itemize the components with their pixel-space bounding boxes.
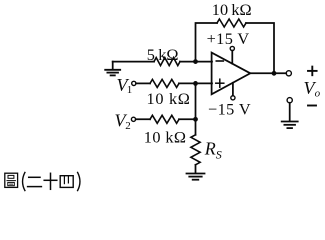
caption open paren <box>23 172 25 190</box>
caption close paren <box>78 172 80 190</box>
svg-text:+15 V: +15 V <box>207 29 250 48</box>
ground G1 stem <box>112 62 114 70</box>
resistor R1 5k zigzag <box>154 58 180 66</box>
terminal circle output plus <box>286 71 291 76</box>
op-amp plus input sign <box>216 79 224 87</box>
svg-text:R: R <box>204 139 216 159</box>
node A junction dot inverting input <box>193 59 198 64</box>
svg-text:1: 1 <box>127 84 133 96</box>
wire vertical: non-inverting node down through node C to Rs <box>195 83 197 134</box>
caption glyph TU (figure) <box>5 173 18 187</box>
output minus sign <box>308 105 316 107</box>
svg-text:S: S <box>216 148 222 162</box>
node B junction dot non-inverting input <box>193 81 198 86</box>
caption glyph SI (four) <box>60 176 73 188</box>
op-amp V- pin circle <box>231 96 235 100</box>
wire feedback loop: top right segment and right vertical down to output <box>246 23 274 73</box>
resistor R3 10k zigzag <box>150 115 179 123</box>
node D output junction dot <box>272 71 277 76</box>
svg-text:10 kΩ: 10 kΩ <box>144 127 187 146</box>
ground G2 bars <box>187 174 205 180</box>
svg-text:o: o <box>315 87 321 99</box>
caption glyph SHI (ten) <box>44 173 57 189</box>
svg-text:−15 V: −15 V <box>208 99 251 118</box>
terminal circle V1 <box>132 81 136 85</box>
op-amp minus input sign <box>216 60 223 62</box>
terminal circle output minus <box>287 98 292 103</box>
ground G1 bars <box>105 70 120 76</box>
wire Rs to ground G2 <box>195 165 197 173</box>
svg-text:5 kΩ: 5 kΩ <box>147 45 179 64</box>
wire row1: ground to 5k resistor <box>113 61 154 63</box>
wire row3: resistor to node C <box>179 118 196 120</box>
output plus sign <box>308 67 317 76</box>
op-amp V- power pin stub <box>232 83 234 96</box>
svg-text:2: 2 <box>125 120 131 132</box>
svg-text:10 kΩ: 10 kΩ <box>212 0 252 19</box>
resistor R-feedback 10k zigzag <box>217 19 246 27</box>
wire row2: V1 terminal to resistor <box>136 82 150 84</box>
svg-text:10 kΩ: 10 kΩ <box>147 89 191 108</box>
node C junction dot V2 summing <box>193 117 198 122</box>
wire row2: resistor to opamp non-inverting input <box>179 82 212 84</box>
resistor R2 10k zigzag <box>150 79 179 87</box>
terminal circle V2 <box>131 117 135 121</box>
wire output minus terminal to ground G3 <box>289 103 291 121</box>
wire row1: resistor to opamp inverting input <box>180 61 212 63</box>
resistor RS vertical zigzag <box>191 135 200 165</box>
wire output from opamp apex to output terminal <box>250 72 286 74</box>
op-amp V+ power pin stub <box>231 51 233 64</box>
op-amp V+ pin circle <box>230 46 234 50</box>
ground G3 bars <box>282 122 298 129</box>
caption glyph ER (two) <box>28 177 42 186</box>
wire feedback loop: left vertical from inverting node up <box>196 23 218 62</box>
wire row3: V2 terminal to resistor <box>136 118 150 120</box>
op-amp U1 triangle <box>212 53 251 95</box>
